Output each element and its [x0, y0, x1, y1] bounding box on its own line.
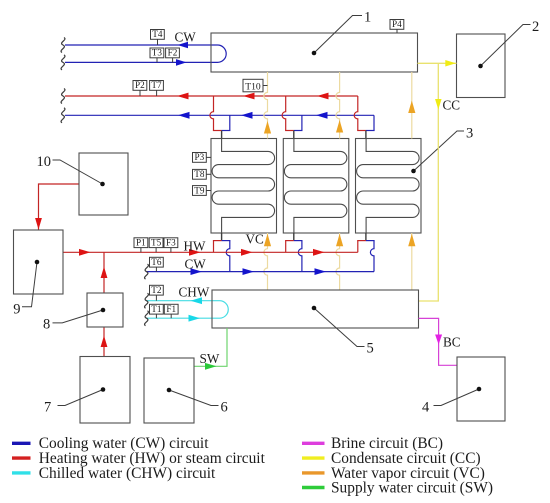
legend text left 2 — [39, 450, 266, 467]
sensor P1 — [134, 238, 148, 253]
svg-text:CHW: CHW — [179, 284, 210, 299]
wire CW return line (top, to cooling tower) — [65, 44, 218, 46]
arrow VC line 3 up (upper) — [408, 101, 415, 114]
label VC — [246, 232, 265, 247]
legend swatch right 1 — [302, 442, 325, 445]
svg-text:T8: T8 — [194, 169, 205, 179]
heat exchanger box 1 of unit 3 — [211, 139, 277, 234]
svg-text:P1: P1 — [136, 238, 146, 248]
coil 1 top stub — [221, 131, 223, 139]
svg-text:5: 5 — [367, 341, 374, 357]
leader 7 — [58, 387, 106, 405]
wire CW riser into coil 2 bottom — [294, 241, 303, 272]
legend swatch left 3 — [12, 471, 31, 474]
wire CW riser into coil 1 bottom — [222, 241, 231, 272]
legend text left 3 — [39, 465, 216, 482]
svg-text:3: 3 — [466, 126, 473, 142]
svg-text:CC: CC — [443, 98, 461, 113]
wire CW supply line (second, into absorber) — [65, 61, 218, 63]
legend text right 2 — [331, 450, 481, 467]
wire HW riser into coil 2 bottom — [285, 241, 294, 253]
wire HW drop into coil 1 top — [210, 96, 222, 131]
svg-text:CW: CW — [175, 29, 197, 44]
wire CW drop into coil 3 top — [366, 115, 375, 130]
sensor F1 — [164, 304, 178, 318]
svg-text:8: 8 — [43, 317, 50, 333]
wire VC vapor line 2 upper segment — [336, 72, 340, 139]
pump 6 — [144, 358, 194, 423]
wire HW drop into coil 2 top — [282, 96, 294, 131]
arrow CW top line (left) — [178, 42, 189, 49]
arrow CHW lower (right) — [189, 315, 201, 322]
label CHW — [179, 284, 210, 299]
svg-text:Supply water circuit (SW): Supply water circuit (SW) — [331, 479, 493, 496]
leader 10 — [53, 160, 105, 186]
heat exchanger box 3 of unit 3 — [356, 139, 422, 234]
coil 2 bottom stub — [293, 233, 295, 241]
svg-text:4: 4 — [422, 400, 430, 416]
sensor T10 — [243, 79, 268, 92]
arrow SW right — [205, 363, 217, 370]
leader 1 — [312, 16, 362, 56]
label 6 — [221, 400, 228, 416]
svg-text:T6: T6 — [151, 257, 162, 267]
legend swatch left 2 — [12, 456, 31, 459]
arrow CW bus right 1 — [191, 268, 203, 275]
leader 6 — [167, 388, 219, 406]
svg-text:T4: T4 — [152, 29, 163, 39]
heat exchanger box 2 of unit 3 — [283, 139, 349, 234]
sensor T5 — [149, 238, 163, 253]
pipe break on HW header — [61, 89, 65, 104]
sensor P2 — [133, 80, 147, 96]
wire HW from tank 10 to pump 9 — [39, 184, 80, 230]
arrow HW header left 3 — [317, 93, 329, 100]
arrow VC line 1 up (upper) — [264, 121, 271, 134]
arrow CHW upper (left) — [191, 297, 203, 304]
arrow HW bus right 0 — [79, 249, 91, 256]
label 4 — [422, 400, 430, 416]
wire HW drop into coil 3 top — [354, 96, 366, 131]
wire VC vapor line 3 lower segment — [411, 233, 413, 290]
pump 8 — [87, 293, 123, 327]
arrow VC line 3 up (lower) — [408, 234, 415, 247]
svg-text:T9: T9 — [194, 185, 205, 195]
legend swatch right 2 — [302, 456, 325, 459]
svg-text:9: 9 — [13, 302, 20, 318]
legend text right 4 — [331, 479, 493, 496]
svg-text:F1: F1 — [166, 304, 176, 314]
arrow HW bus right 3 — [313, 249, 325, 256]
label 2 — [532, 19, 539, 35]
arrow CC down — [435, 99, 442, 110]
svg-text:CW: CW — [185, 257, 207, 272]
svg-text:1: 1 — [364, 10, 371, 26]
arrow CW second line (right) — [176, 59, 187, 66]
leader 4 — [434, 387, 482, 406]
sensor P3 — [193, 152, 212, 162]
svg-text:T2: T2 — [151, 285, 162, 295]
arrow CW bus right 3 — [315, 268, 327, 275]
coil 3 top stub — [365, 131, 367, 139]
pipe break on CW second line — [61, 55, 65, 70]
serpentine coil 2 — [284, 139, 346, 234]
label 3 — [466, 126, 473, 142]
svg-text:T5: T5 — [151, 238, 162, 248]
pipe break on CW header — [61, 108, 65, 123]
svg-text:T1: T1 — [151, 304, 162, 314]
arrow CW bus right 2 — [243, 268, 255, 275]
legend text right 1 — [331, 435, 443, 452]
legend text left 1 — [39, 435, 209, 452]
label CC — [443, 98, 461, 113]
CW U-bend inside vessel 1 — [218, 45, 227, 62]
sensor F2 — [166, 48, 180, 63]
leader 9 — [22, 260, 39, 307]
arrow CC right into vessel 2 — [445, 60, 456, 67]
svg-text:2: 2 — [532, 19, 539, 35]
svg-text:10: 10 — [37, 154, 52, 170]
svg-text:F2: F2 — [168, 48, 178, 58]
wire HW header (top) — [65, 95, 358, 97]
label SW — [200, 351, 220, 366]
svg-text:6: 6 — [221, 400, 228, 416]
tank 10 — [79, 153, 128, 215]
arrow CW header left 2 — [241, 112, 253, 119]
wire HW riser into coil 1 bottom — [213, 241, 222, 253]
svg-text:P4: P4 — [392, 19, 402, 29]
arrow BC down — [435, 335, 442, 345]
wire HW riser from 8 to bus — [103, 252, 105, 293]
label 7 — [44, 400, 51, 416]
svg-text:SW: SW — [200, 351, 220, 366]
leader 3 — [411, 131, 464, 173]
label CW (top) — [175, 29, 197, 44]
wire HW riser into coil 3 bottom — [357, 241, 366, 253]
pipe break on CHW lower — [145, 311, 149, 326]
arrow VC line 2 up (upper) — [336, 120, 343, 133]
arrow HW riser up (7 to 8) — [101, 336, 108, 348]
sensor T2 — [150, 285, 164, 301]
sensor T9 — [193, 185, 212, 195]
sensor T6 — [150, 257, 164, 272]
svg-text:VC: VC — [246, 232, 265, 247]
svg-text:P3: P3 — [195, 152, 205, 162]
wire HW riser from 7 to 8 — [103, 327, 105, 357]
arrow HW bus right 1 — [189, 249, 201, 256]
svg-text:T7: T7 — [151, 80, 162, 90]
label 9 — [13, 302, 20, 318]
wire CW header (top) — [65, 114, 374, 116]
wire CW drop into coil 1 top — [222, 115, 231, 130]
arrow HW header left 2 — [243, 93, 255, 100]
wire CW drop into coil 2 top — [294, 115, 303, 130]
label 8 — [43, 317, 50, 333]
coil 2 top stub — [293, 131, 295, 139]
wire VC vapor line 1 upper segment — [264, 72, 268, 139]
sensor T3 — [150, 48, 164, 63]
wire CW bus (bottom) — [146, 271, 374, 273]
wire CHW return (upper) — [146, 300, 220, 302]
svg-text:P2: P2 — [135, 80, 145, 90]
boiler 9 — [14, 230, 64, 294]
vessel 1 (condenser) — [211, 33, 418, 72]
svg-text:HW: HW — [184, 239, 207, 254]
label HW — [184, 239, 207, 254]
serpentine coil 3 — [357, 139, 419, 234]
legend text right 3 — [331, 465, 485, 482]
wire CC from vessel 1 to vessel 2 — [418, 62, 457, 64]
CHW U-bend inside vessel 5 — [220, 301, 229, 319]
vessel 2 — [457, 34, 506, 98]
tank 7 — [80, 357, 130, 424]
label 10 — [37, 154, 52, 170]
serpentine coil 1 — [212, 139, 275, 234]
wire CW riser into coil 3 bottom — [366, 241, 375, 272]
coil 3 bottom stub — [365, 233, 367, 241]
arrow CW header left 1 — [178, 112, 190, 119]
tank 4 — [457, 357, 505, 421]
sensor F3 — [164, 238, 178, 253]
label BC — [443, 335, 461, 350]
leader 2 — [478, 25, 530, 69]
wire CC down to vessel 5 — [419, 63, 439, 301]
sensor T4 — [151, 29, 165, 45]
pipe break on CW bus — [145, 264, 149, 279]
label 1 — [364, 10, 371, 26]
vessel 5 (evaporator/absorber) — [212, 290, 419, 328]
arrow HW header left 1 — [177, 93, 189, 100]
wire VC vapor line 3 upper segment — [411, 72, 413, 139]
leader 5 — [312, 306, 365, 347]
legend swatch right 4 — [302, 486, 325, 489]
wire VC vapor line 2 lower segment — [336, 233, 340, 290]
legend swatch left 1 — [12, 442, 31, 445]
leader 8 — [53, 308, 106, 323]
label CW (bus) — [185, 257, 207, 272]
legend swatch right 3 — [302, 471, 325, 474]
label 5 — [367, 341, 374, 357]
wire VC vapor line 1 lower segment — [264, 233, 268, 290]
svg-text:T10: T10 — [245, 82, 261, 93]
sensor T7 — [150, 80, 164, 96]
sensor T1 — [150, 304, 164, 318]
sensor T8 — [193, 169, 212, 179]
wire HW bus (bottom) — [63, 251, 358, 253]
svg-text:Chilled water (CHW) circuit: Chilled water (CHW) circuit — [39, 465, 216, 482]
pipe break on CW top line — [61, 38, 65, 53]
svg-text:7: 7 — [44, 400, 51, 416]
wire CHW supply (lower) — [146, 317, 220, 319]
arrow HW down into 9 — [35, 218, 42, 230]
arrow HW riser up (8 to bus) — [101, 267, 108, 279]
arrow HW bus right 2 — [241, 249, 253, 256]
sensor P4 — [390, 19, 404, 33]
coil 1 bottom stub — [221, 233, 223, 241]
arrow VC line 1 up (lower) — [264, 234, 271, 247]
wire BC from vessel 5 to tank 4 — [419, 318, 458, 365]
svg-text:F3: F3 — [166, 238, 176, 248]
svg-text:T3: T3 — [152, 48, 163, 58]
pipe break on CHW upper — [145, 293, 149, 308]
svg-text:BC: BC — [443, 335, 461, 350]
arrow VC line 2 up (lower) — [336, 234, 343, 247]
wire SW from pump 6 to vessel 5 — [194, 328, 227, 366]
arrow CW header left 3 — [316, 112, 328, 119]
